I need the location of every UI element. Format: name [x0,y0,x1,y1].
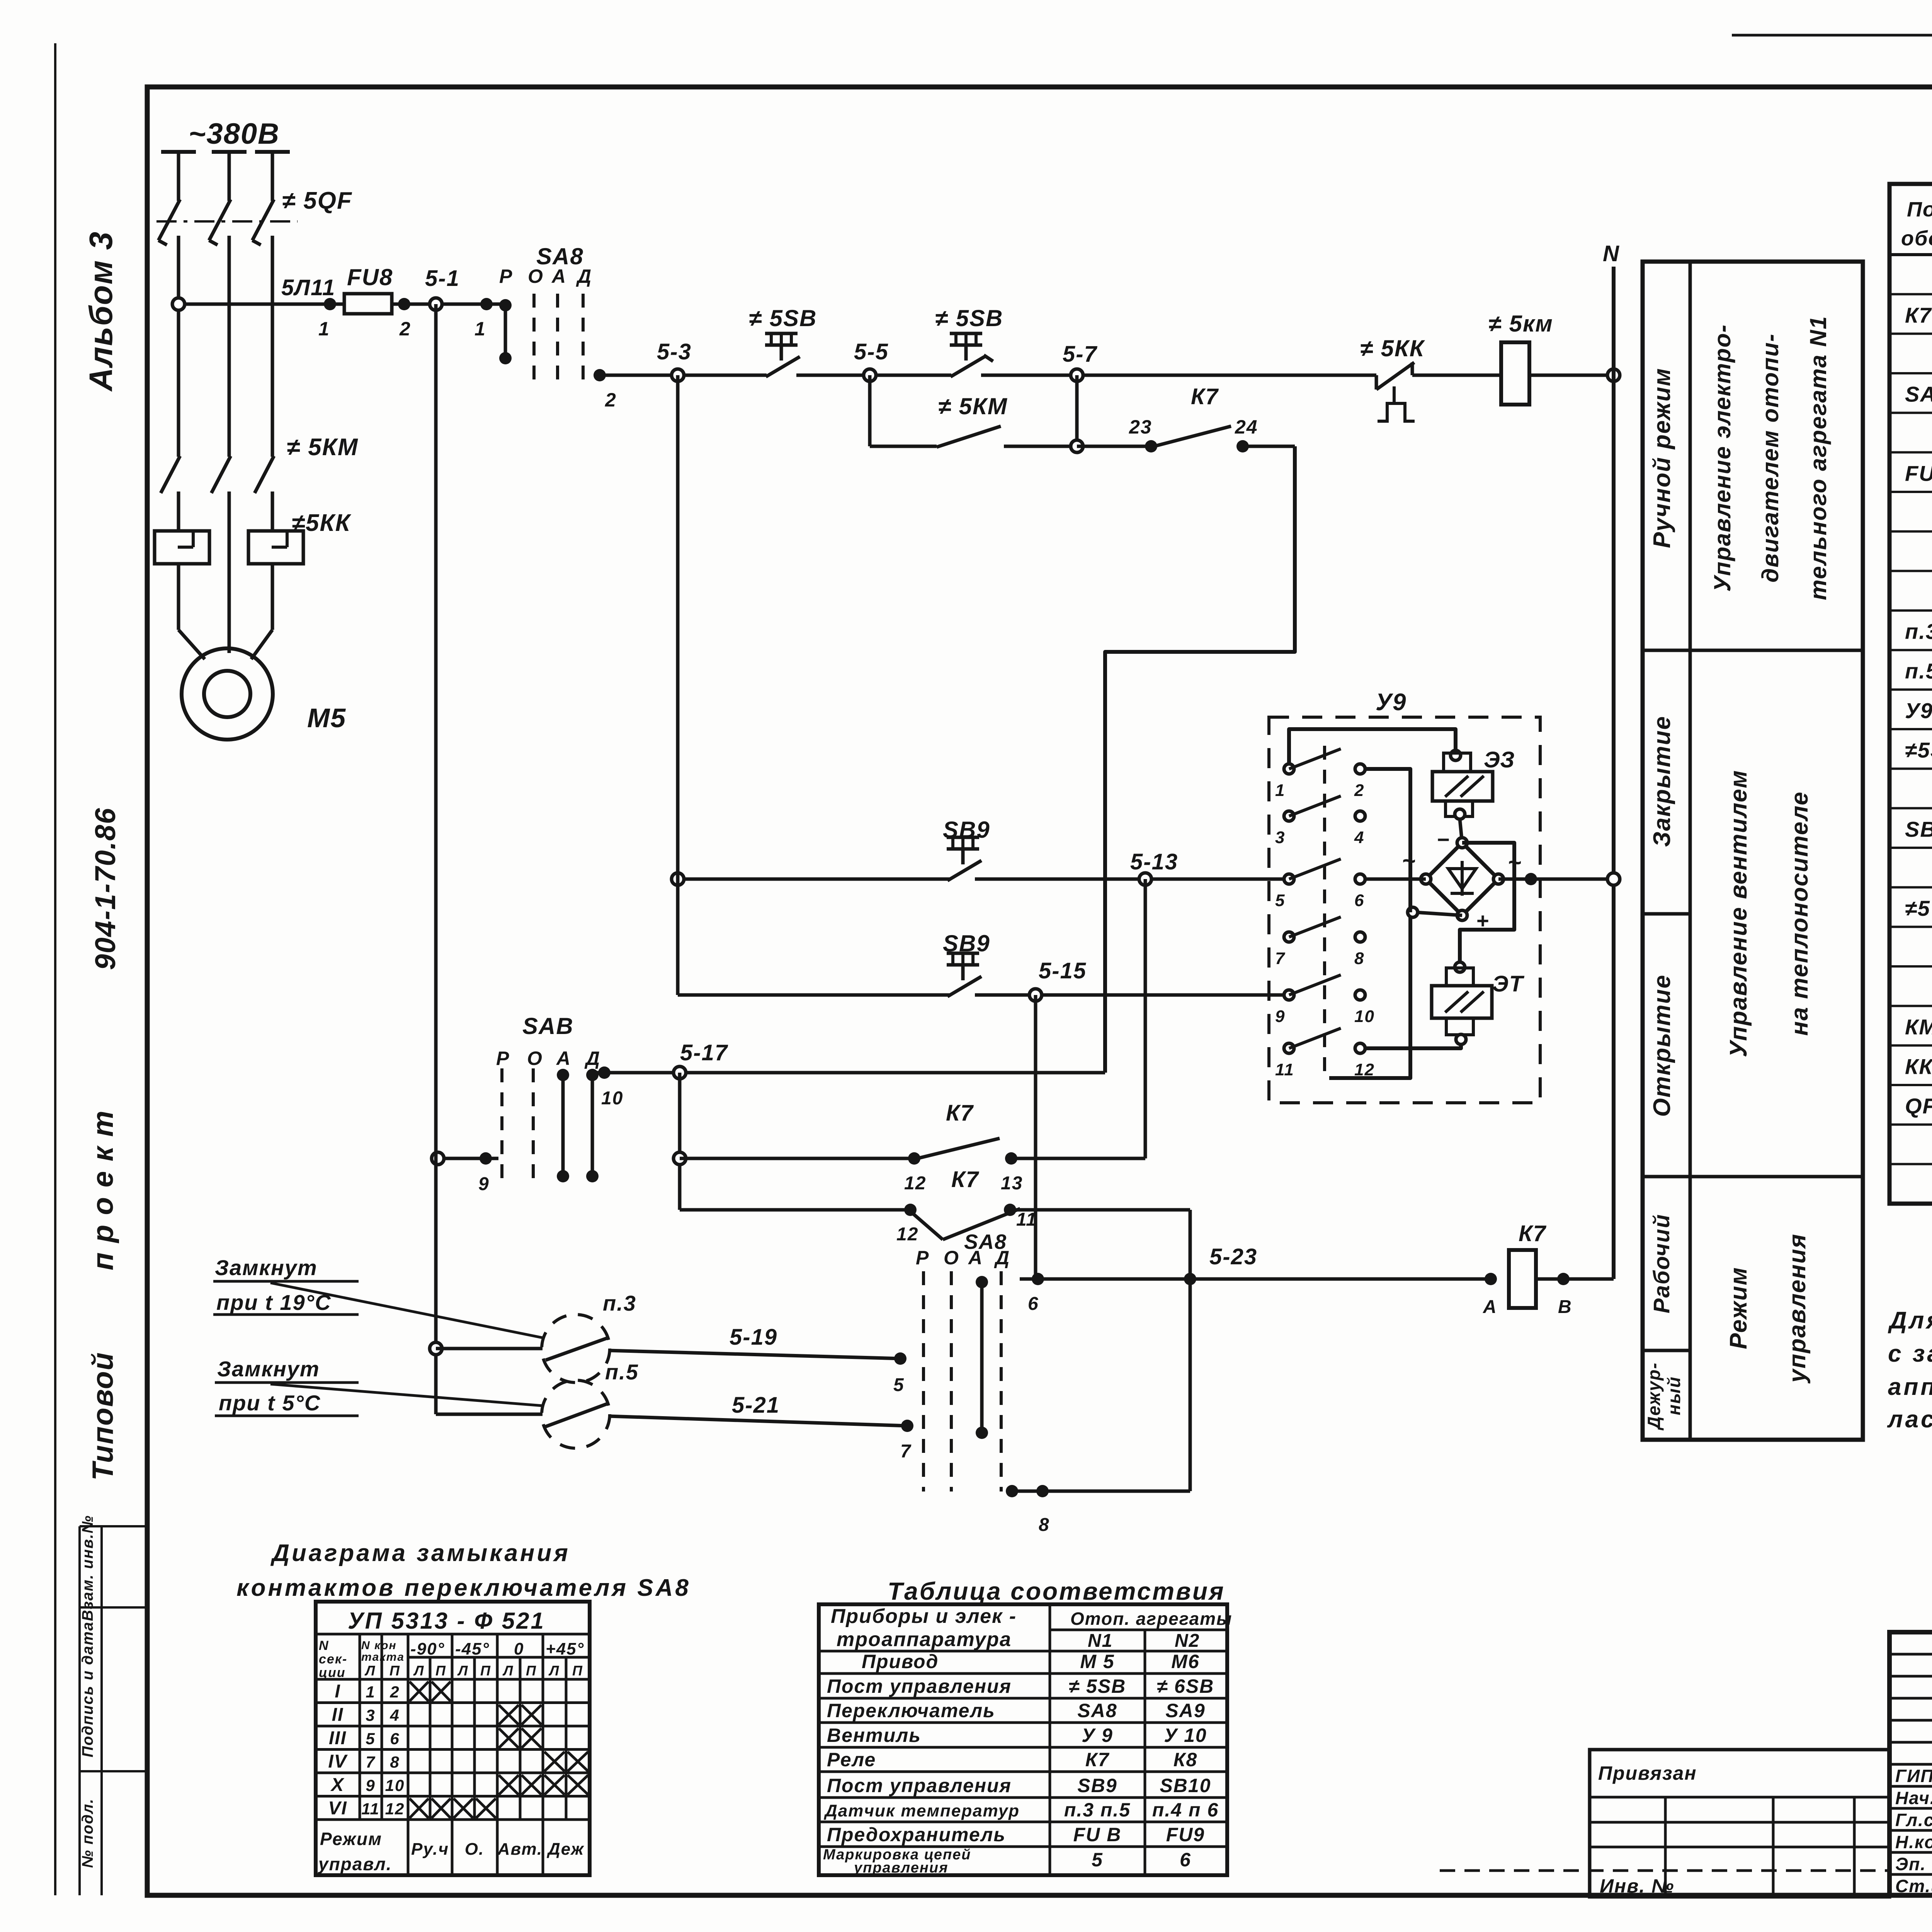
svg-text:№ подл.: № подл. [79,1798,96,1868]
svg-text:Л: Л [548,1663,560,1679]
margin text Альбом 3 [83,231,119,392]
svg-text:двигателем отопи-: двигателем отопи- [1757,333,1783,582]
svg-text:Управление электро-: Управление электро- [1709,324,1735,592]
wire ЭЗ to bridge [1460,819,1462,843]
supply label ~380В [189,117,280,150]
wire 5Л11 tap line [184,303,502,306]
solenoid ЭЗ [1432,747,1515,819]
label ≠5QF [282,187,352,214]
svg-text:контактов переключателя SА8: контактов переключателя SА8 [236,1575,691,1601]
wire 5-13 node down [1144,879,1147,1158]
svg-text:тельного агрегата N1: тельного агрегата N1 [1805,316,1831,600]
circuit breaker ≠5QF [156,152,298,457]
svg-text:SА8: SА8 [1077,1700,1117,1721]
svg-text:Датчик температур: Датчик температур [823,1801,1020,1820]
aux contact ≠5КМ [870,393,1077,447]
svg-text:12: 12 [896,1224,918,1245]
svg-text:Р: Р [916,1247,929,1269]
svg-text:SAВ: SAВ [522,1013,574,1039]
thermal contact ≠5КК [1360,335,1425,421]
svg-text:N: N [319,1638,329,1653]
svg-text:Реле: Реле [827,1749,876,1770]
svg-text:≠ 5КК: ≠ 5КК [1360,335,1425,361]
svg-text:ласно таблице соответствия.: ласно таблице соответствия. [1887,1406,1932,1433]
svg-text:~380В: ~380В [189,117,280,150]
У9 contacts 1-12 [1275,749,1365,800]
svg-text:SА9: SА9 [1165,1700,1205,1721]
svg-text:≠ 5SB: ≠ 5SB [1069,1675,1126,1697]
node 5-13 junction [1139,873,1151,885]
mode label Дежурный [1644,1362,1684,1431]
wire from 5-7 down [1075,375,1079,446]
svg-text:3: 3 [1275,828,1285,847]
svg-text:ЭЗ: ЭЗ [1484,747,1515,772]
SA8 diagram data rows [328,1681,588,1819]
svg-text:Привязан: Привязан [1598,1762,1697,1784]
svg-text:П: П [526,1663,537,1679]
mode label Ручной режим [1649,367,1675,548]
svg-text:Замкнут: Замкнут [217,1357,320,1381]
svg-text:2: 2 [389,1683,400,1701]
svg-text:10: 10 [601,1088,623,1109]
svg-text:Н.контр: Н.контр [1895,1832,1932,1852]
svg-text:6: 6 [390,1730,400,1748]
wire rung 5-23 [1020,1244,1491,1314]
svg-text:Д: Д [994,1247,1010,1269]
wire R7 down to 5-23 [1189,1210,1192,1491]
rectifier bridge [1402,827,1522,933]
svg-text:6: 6 [1180,1849,1191,1871]
mode text Управление электродвигателем [1709,316,1831,600]
svg-text:0: 0 [514,1639,524,1658]
svg-text:5: 5 [1275,891,1285,910]
svg-text:Инв. №: Инв. № [1600,1875,1674,1897]
label У9 [1376,689,1406,716]
margin text проект [87,1110,119,1270]
wire rung 5-13 [678,878,1289,881]
svg-text:Рабочий: Рабочий [1649,1214,1674,1313]
fuse FU8 [344,294,392,314]
label М5 [307,703,346,733]
svg-text:Деж: Деж [546,1840,585,1859]
svg-text:обозн.: обозн. [1901,227,1932,250]
svg-text:−: − [1437,827,1450,852]
mode label Закрытие [1649,716,1675,847]
svg-text:У 9: У 9 [1082,1725,1113,1746]
svg-text:ЭТ: ЭТ [1492,971,1525,997]
node 5-5 [854,339,889,381]
svg-text:В: В [1558,1297,1572,1317]
svg-text:6: 6 [1028,1294,1039,1314]
svg-text:троаппаратура: троаппаратура [837,1628,1012,1651]
label 5-1 [425,266,460,291]
wire pin2 drop [1329,769,1410,1078]
svg-text:Эп. 12.: Эп. 12. [1895,1854,1932,1874]
svg-text:≠5КК: ≠5КК [292,510,352,536]
svg-text:N кон: N кон [361,1639,397,1652]
svg-text:Диаграма замыкания: Диаграма замыкания [270,1540,570,1566]
svg-text:Д: Д [584,1048,600,1069]
wire rung 5-15 [678,993,1289,997]
wire 5-15 down to 6 [1034,995,1037,1279]
wire coil to N [1529,374,1614,377]
svg-text:К7: К7 [1085,1749,1110,1770]
SA8 diagram grid [316,1602,590,1875]
svg-text:Л: Л [457,1663,469,1679]
SA8 diagram header [348,1608,545,1634]
contactor coil ≠5КМ [1488,311,1553,405]
svg-text:-90°: -90° [410,1639,445,1658]
svg-text:5-21: 5-21 [732,1393,780,1418]
rail VX2 [676,375,680,995]
wire rung 5-3 5-5 5-7 [600,374,1501,377]
svg-text:Р: Р [499,265,513,287]
svg-text:N: N [1603,241,1620,266]
valve unit У9 dashed box [1269,717,1540,1103]
svg-text:при t 5°С: при t 5°С [219,1391,321,1415]
svg-text:управл.: управл. [318,1854,392,1874]
node 5-15 junction [1029,958,1087,1001]
svg-text:ный: ный [1664,1376,1684,1415]
svg-text:Таблица соответствия: Таблица соответствия [888,1577,1225,1605]
svg-text:Пост управления: Пост управления [827,1675,1012,1697]
svg-text:6: 6 [1354,891,1364,910]
node on V17 R6 [673,1152,686,1165]
svg-text:5-13: 5-13 [1130,849,1178,874]
pushbutton SB9 (first) [943,817,990,881]
svg-text:5-7: 5-7 [1063,342,1098,367]
wire 8 return [1006,1485,1190,1535]
svg-text:Режим: Режим [320,1829,382,1849]
svg-text:9: 9 [366,1776,375,1794]
svg-text:10: 10 [1354,1007,1375,1026]
svg-text:Для отопительного агрегата: Для отопительного агрегата N2 схема анал… [1888,1307,1932,1334]
svg-text:FU8: FU8 [1905,461,1932,485]
svg-text:М5: М5 [307,703,346,733]
mode text Управление вентилем [1725,770,1813,1057]
svg-text:Закрытие: Закрытие [1649,716,1675,847]
svg-text:SB9: SB9 [943,817,990,843]
svg-text:8: 8 [390,1753,400,1771]
svg-text:FU9: FU9 [1166,1824,1205,1845]
svg-text:Л: Л [502,1663,514,1679]
svg-text:Отоп. агрегаты: Отоп. агрегаты [1070,1609,1232,1629]
svg-text:управления: управления [1784,1233,1811,1384]
svg-text:SA8: SA8 [1905,382,1932,406]
svg-text:К8: К8 [1173,1749,1198,1770]
svg-text:п р о е к т: п р о е к т [87,1110,119,1270]
margin label Подпись и дата [79,1621,96,1757]
node 5-7 [1063,342,1098,381]
relay contact K7 23-24 [1077,384,1295,452]
svg-text:п.3.: п.3. [1905,619,1932,644]
margin text Типовой [87,1352,119,1481]
svg-text:SВ9: SВ9 [1905,817,1932,841]
label ≠5КК (power) [292,510,352,536]
label FU8 [347,264,393,290]
svg-text:2: 2 [605,389,617,411]
svg-text:Д: Д [576,265,592,287]
svg-text:П: П [480,1663,491,1679]
pushbutton ≠5SB (NO) [749,305,817,377]
node on N rail [1607,369,1620,381]
svg-text:2: 2 [1354,781,1364,800]
N rail [1603,241,1620,1279]
SA8 upper column letters [499,265,592,287]
svg-text:SB9: SB9 [943,930,990,956]
svg-text:Авт.: Авт. [497,1840,543,1859]
relay coil K7 [1483,1221,1614,1317]
svg-text:11: 11 [1016,1209,1037,1230]
wire plus return [1408,769,1462,917]
callout замкнут при t 19 [213,1255,543,1338]
svg-text:К7: К7 [946,1100,974,1126]
node 9 stub [432,1152,498,1194]
label 5Л11 [281,275,335,300]
left margin ruler [55,43,147,1895]
label 5-13 [1130,849,1178,874]
correspondence grid [819,1604,1227,1875]
svg-text:II: II [332,1705,344,1725]
svg-text:N1: N1 [1088,1631,1113,1651]
svg-text:Взам. инв.№: Взам. инв.№ [79,1515,96,1621]
pushbutton SB9 (second) [943,930,990,997]
svg-text:П: П [572,1663,583,1679]
svg-text:Дежур-: Дежур- [1644,1362,1664,1431]
svg-text:9: 9 [1275,1007,1285,1026]
label Инв № [1600,1875,1674,1897]
svg-text:А: А [968,1247,983,1269]
svg-text:К7: К7 [1519,1221,1547,1246]
svg-text:Ручной режим: Ручной режим [1649,367,1675,548]
svg-text:12: 12 [385,1800,405,1818]
svg-text:КК: КК [1905,1054,1932,1078]
svg-text:Л: Л [364,1663,376,1679]
svg-text:≠ 5км: ≠ 5км [1488,311,1553,337]
svg-text:п.5: п.5 [1905,659,1932,683]
svg-text:+45°: +45° [546,1639,584,1658]
svg-text:п.3: п.3 [603,1291,636,1315]
SA8 diagram bottom row [318,1829,585,1874]
svg-text:Пост управления: Пост управления [827,1775,1012,1796]
thermal relay heaters ≠5КК [155,531,303,564]
mode text Режим управления [1725,1233,1811,1384]
svg-text:10: 10 [385,1776,405,1794]
wire 5-21 [609,1393,913,1462]
svg-text:Привод: Привод [862,1651,939,1672]
svg-text:Переключатель: Переключатель [827,1700,995,1721]
svg-text:904-1-70.86: 904-1-70.86 [89,807,121,970]
svg-text:УП 5313 - Ф 521: УП 5313 - Ф 521 [348,1608,545,1634]
junction dots pin1 pin2 [324,298,493,310]
svg-text:К7: К7 [951,1167,980,1192]
wire pin1 to ЭЗ [1289,729,1456,764]
svg-text:5-19: 5-19 [730,1325,777,1350]
relay contact K7 12-13 [680,1100,1145,1194]
note paragraph [1887,1274,1932,1433]
switch SA8 middle label [522,1013,574,1039]
svg-text:5-3: 5-3 [657,339,692,364]
svg-text:X: X [330,1775,345,1795]
wire minus loop to ЭТ [1460,843,1514,964]
svg-text:Вентиль: Вентиль [827,1725,921,1746]
svg-text:QF: QF [1905,1094,1932,1118]
svg-text:п.3 п.5: п.3 п.5 [1064,1799,1131,1821]
svg-text:I: I [335,1681,340,1702]
svg-text:1: 1 [1275,781,1285,800]
node N at 5-13 [1607,873,1620,885]
svg-text:≠ 5КМ: ≠ 5КМ [287,434,359,461]
svg-text:FU8: FU8 [347,264,393,290]
correspondence header [831,1605,1232,1651]
pin labels 1 2 1 [318,318,486,340]
svg-text:SВ9: SВ9 [1077,1775,1117,1796]
pushbutton ≠5SB (NC) [935,305,1003,377]
motor M5 [182,648,273,740]
svg-text:FU В: FU В [1073,1824,1122,1845]
wire bridge to line 5-13 [1365,873,1614,885]
spec header texts [1901,198,1932,252]
svg-text:Гл.спец: Гл.спец [1895,1810,1932,1830]
sensor п.3 [430,1291,636,1383]
svg-text:Замкнут: Замкнут [215,1255,318,1280]
svg-text:А: А [1483,1297,1497,1317]
svg-text:5Л11: 5Л11 [281,275,335,300]
svg-text:13: 13 [1001,1173,1023,1194]
svg-text:У9: У9 [1905,698,1932,723]
svg-text:Приборы и элек -: Приборы и элек - [831,1605,1017,1628]
svg-text:5-23: 5-23 [1209,1244,1257,1269]
svg-text:К7: К7 [1905,303,1932,327]
rail VX1 [434,304,438,1414]
svg-text:≠5SB: ≠5SB [1905,738,1932,762]
svg-text:КМ: КМ [1905,1015,1932,1039]
mode table box [1643,262,1863,1440]
start dot node 2 [594,369,617,411]
svg-text:Л: Л [413,1663,425,1679]
svg-text:Подпись и дата: Подпись и дата [79,1621,96,1757]
svg-text:5-5: 5-5 [854,339,889,364]
svg-text:11: 11 [361,1800,380,1818]
svg-text:Режим: Режим [1725,1267,1752,1349]
svg-text:п.4 п 6: п.4 п 6 [1152,1799,1219,1821]
signature rows [1895,1766,1932,1896]
svg-text:5-15: 5-15 [1039,958,1087,983]
svg-text:8: 8 [1354,949,1364,968]
svg-text:такта: такта [361,1651,405,1663]
svg-text:24: 24 [1235,416,1258,438]
svg-text:Типовой: Типовой [87,1352,119,1481]
svg-text:Альбом 3: Альбом 3 [83,231,119,392]
svg-text:К7: К7 [1191,384,1219,409]
sensor п.5 [436,1360,639,1448]
spec table grid [1889,184,1932,1204]
svg-text:аппаратуры, индекса маркиров: аппаратуры, индекса маркировки цепей упр… [1888,1374,1932,1400]
svg-text:О.: О. [465,1840,484,1859]
svg-text:А: А [551,265,566,287]
SA8 upper contact P (closed) [499,299,512,364]
svg-text:М 5: М 5 [1080,1651,1114,1672]
svg-text:N2: N2 [1175,1631,1200,1651]
svg-text:М6: М6 [1171,1651,1199,1672]
svg-text:О: О [528,265,544,287]
SA8 middle dashed columns [502,1068,533,1184]
SA8 bottom closed contact [976,1276,988,1439]
svg-text:управления: управления [853,1860,948,1876]
svg-text:при t 19°С: при t 19°С [216,1290,332,1315]
svg-text:Открытие: Открытие [1649,974,1675,1117]
svg-text:≠5: ≠5 [1905,896,1930,920]
node on VX2 for 5-13 [672,873,684,885]
node tap on phase A [172,298,185,310]
SA8 upper dashed columns [534,294,583,389]
SA8 diagram subheaders [319,1638,584,1680]
contactor main contacts ≠5КМ [161,456,274,531]
wire ЭТ to pin12 [1365,1044,1461,1048]
margin label № подл. [79,1798,96,1868]
svg-text:Ст.инэк: Ст.инэк [1895,1876,1932,1896]
svg-text:1: 1 [318,318,330,340]
svg-text:5: 5 [366,1730,375,1748]
svg-text:≠ 5QF: ≠ 5QF [282,187,352,214]
label ≠5КМ (power) [287,434,359,461]
svg-text:SВ10: SВ10 [1160,1775,1211,1796]
svg-text:-45°: -45° [455,1639,490,1658]
svg-text:Управление вентилем: Управление вентилем [1725,770,1752,1057]
svg-text:А: А [556,1048,571,1069]
margin text 904-1-70.86 [89,807,121,970]
У9 movable column dashed [1323,746,1326,1078]
wire from 5-5 down [868,375,872,446]
margin label Взам. инв.№ [79,1515,96,1621]
node 5-1 [430,298,442,310]
svg-text:ГИП: ГИП [1895,1766,1932,1786]
svg-text:≠ 6SB: ≠ 6SB [1157,1675,1214,1697]
svg-text:на теплоносителе: на теплоносителе [1786,791,1813,1036]
svg-text:ции: ции [319,1665,346,1680]
svg-text:сек-: сек- [319,1652,347,1667]
svg-text:Нач.отд.: Нач.отд. [1895,1788,1932,1808]
svg-text:О: О [944,1247,959,1269]
svg-text:2: 2 [399,318,411,340]
wire loop to auto feed [1105,446,1295,1073]
motor feeder wires [179,492,272,659]
SA8 bottom dashed columns [923,1271,1001,1492]
svg-text:5-1: 5-1 [425,266,460,291]
SA8 middle column letters [496,1048,600,1069]
svg-text:7: 7 [1275,949,1286,968]
svg-text:11: 11 [1275,1060,1294,1079]
svg-text:23: 23 [1129,416,1152,438]
correspondence rows [823,1651,1219,1876]
correspondence table title [888,1577,1225,1605]
svg-text:3: 3 [366,1706,375,1725]
svg-text:8: 8 [1039,1515,1050,1535]
svg-text:5: 5 [1092,1849,1103,1871]
spec table rows [1905,262,1932,1119]
SA8 middle closed contacts [557,1069,599,1182]
switch SA8 upper label [536,243,584,269]
node 5-3 [657,339,692,381]
svg-text:12: 12 [904,1173,926,1194]
svg-text:п.5: п.5 [605,1360,639,1384]
svg-text:5-17: 5-17 [680,1040,728,1065]
svg-text:Р: Р [496,1048,510,1069]
svg-text:У9: У9 [1376,689,1406,716]
supply terminals [161,150,290,154]
SA8 diagram Л П row [364,1663,583,1679]
node 5-17 [673,1040,728,1079]
